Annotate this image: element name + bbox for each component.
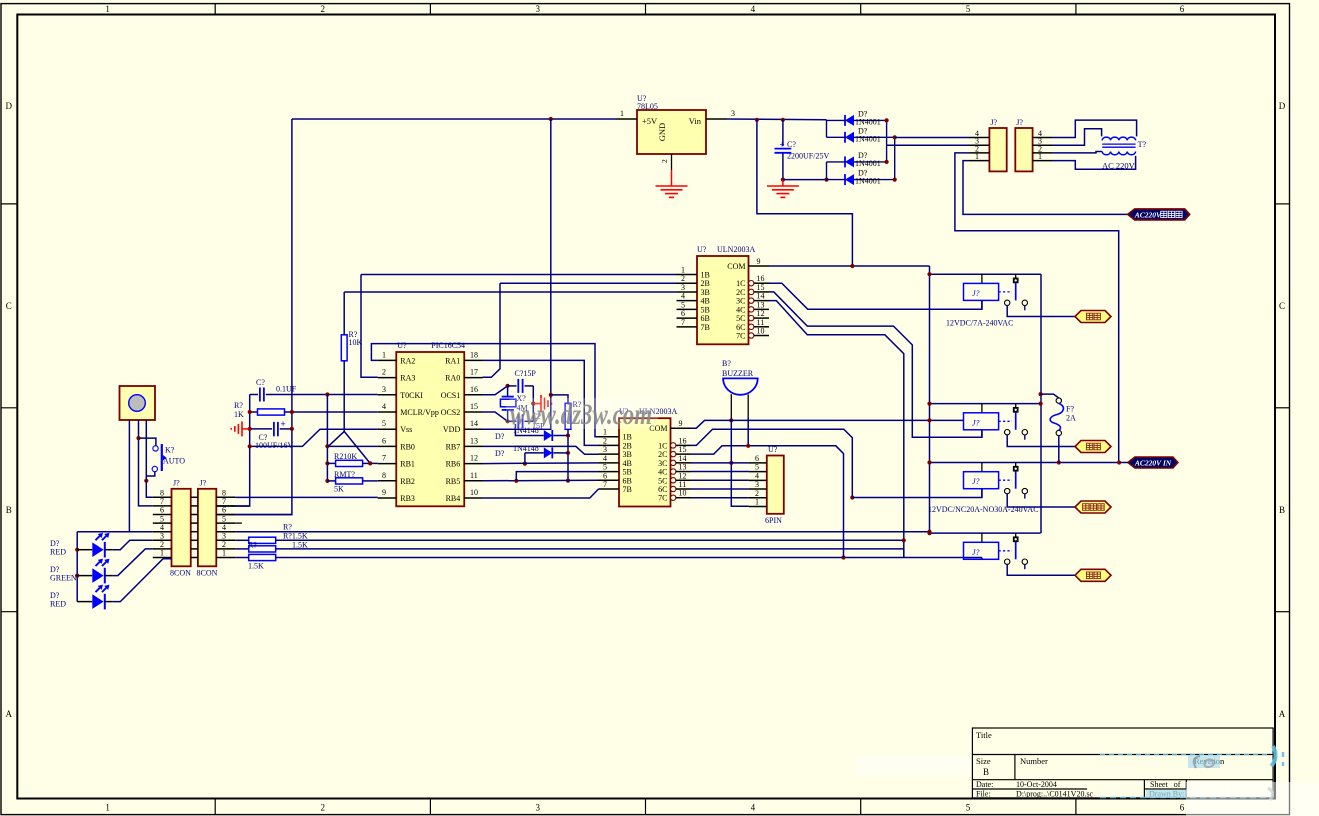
svg-text:2: 2 <box>320 803 325 813</box>
svg-text:1N4148: 1N4148 <box>513 444 539 453</box>
svg-text:J?: J? <box>972 289 980 298</box>
svg-text:1: 1 <box>681 266 685 275</box>
svg-text:RED: RED <box>50 599 66 608</box>
svg-text:3C: 3C <box>736 297 745 306</box>
svg-text:GND: GND <box>657 123 667 141</box>
svg-text:5: 5 <box>966 803 971 813</box>
svg-text:6: 6 <box>382 436 386 445</box>
svg-text:10: 10 <box>470 488 478 497</box>
svg-text:OCS1: OCS1 <box>441 391 461 400</box>
svg-text:PIC16C54: PIC16C54 <box>431 341 465 350</box>
svg-text:7B: 7B <box>701 323 710 332</box>
svg-text:1N4001: 1N4001 <box>855 159 881 168</box>
svg-text:14: 14 <box>679 454 687 463</box>
svg-text:RMT?: RMT? <box>334 470 355 479</box>
svg-text:6C: 6C <box>736 323 745 332</box>
svg-text:0.1UF: 0.1UF <box>276 385 297 394</box>
svg-text:16: 16 <box>470 385 478 394</box>
svg-text:RB5: RB5 <box>446 477 461 486</box>
svg-text:1C: 1C <box>736 279 745 288</box>
svg-text:RA3: RA3 <box>400 374 415 383</box>
svg-text:Sheet of: Sheet of <box>1150 780 1181 789</box>
svg-text:J?: J? <box>173 479 180 488</box>
svg-text:4: 4 <box>751 4 756 14</box>
svg-text:1: 1 <box>620 109 624 118</box>
svg-text:J?: J? <box>200 479 207 488</box>
svg-text:4B: 4B <box>623 459 632 468</box>
svg-text:11: 11 <box>757 318 765 327</box>
svg-text:6: 6 <box>1180 4 1185 14</box>
svg-text:RA2: RA2 <box>400 356 415 365</box>
svg-text:MCLR/Vpp: MCLR/Vpp <box>400 408 439 417</box>
svg-text:18: 18 <box>470 350 478 359</box>
svg-text:7C: 7C <box>658 494 667 503</box>
svg-text:GREEN: GREEN <box>50 573 77 582</box>
svg-text:9: 9 <box>757 257 761 266</box>
svg-text:RB4: RB4 <box>446 494 461 503</box>
svg-text:R210K: R210K <box>334 452 357 461</box>
svg-text:2: 2 <box>382 368 386 377</box>
svg-text:A: A <box>1279 709 1286 719</box>
svg-text:10: 10 <box>679 489 687 498</box>
svg-text:6B: 6B <box>701 314 710 323</box>
svg-text:15: 15 <box>757 283 765 292</box>
svg-text:1: 1 <box>222 549 226 558</box>
svg-text:2200UF/25V: 2200UF/25V <box>787 152 829 161</box>
svg-text:1: 1 <box>975 152 979 161</box>
svg-text:4: 4 <box>681 292 685 301</box>
svg-text:RB0: RB0 <box>400 442 415 451</box>
svg-text:C?15P: C?15P <box>515 369 537 378</box>
svg-text:K?: K? <box>165 446 175 455</box>
svg-text:RB3: RB3 <box>400 494 415 503</box>
svg-text:11: 11 <box>470 471 478 480</box>
svg-text:10-Oct-2004: 10-Oct-2004 <box>1016 780 1057 789</box>
svg-text:13: 13 <box>757 300 765 309</box>
svg-text:1: 1 <box>105 4 110 14</box>
svg-text:6PIN: 6PIN <box>765 516 782 525</box>
svg-text:12: 12 <box>679 471 687 480</box>
svg-text:RED: RED <box>50 548 66 557</box>
svg-text:RB1: RB1 <box>400 460 415 469</box>
svg-text:1.5K: 1.5K <box>292 541 308 550</box>
svg-text:Size: Size <box>976 756 991 766</box>
svg-text:3: 3 <box>731 109 735 118</box>
svg-text:J?: J? <box>972 418 980 427</box>
svg-text:6: 6 <box>603 471 607 480</box>
svg-text:+: + <box>780 140 785 150</box>
svg-text:5: 5 <box>382 419 386 428</box>
svg-text:1B: 1B <box>701 271 710 280</box>
svg-text:3: 3 <box>681 283 685 292</box>
svg-text:T0CKI: T0CKI <box>400 391 423 400</box>
svg-text:3C: 3C <box>658 459 667 468</box>
svg-text:5B: 5B <box>623 468 632 477</box>
svg-text:15: 15 <box>470 402 478 411</box>
svg-text:7B: 7B <box>623 485 632 494</box>
svg-text:BUZZER: BUZZER <box>722 369 754 378</box>
svg-text:5K: 5K <box>334 485 344 494</box>
svg-text:D: D <box>1279 101 1286 111</box>
svg-text:5B: 5B <box>701 305 710 314</box>
svg-text:RB6: RB6 <box>446 460 461 469</box>
svg-text:7C: 7C <box>736 332 745 341</box>
svg-text:ULN2003A: ULN2003A <box>717 245 755 254</box>
svg-text:2: 2 <box>320 4 325 14</box>
svg-text:F?: F? <box>1066 405 1074 414</box>
svg-text:9: 9 <box>679 419 683 428</box>
svg-text:C: C <box>6 301 12 311</box>
svg-text:12: 12 <box>470 454 478 463</box>
svg-text:3: 3 <box>755 480 759 489</box>
svg-text:5: 5 <box>681 300 685 309</box>
svg-text:5C: 5C <box>736 314 745 323</box>
svg-text:Vss: Vss <box>400 425 412 434</box>
svg-text:6: 6 <box>1180 803 1185 813</box>
svg-text:6B: 6B <box>623 476 632 485</box>
svg-text:1: 1 <box>755 498 759 507</box>
svg-text:16: 16 <box>679 436 687 445</box>
svg-text:1: 1 <box>160 549 164 558</box>
svg-text:R?: R? <box>234 401 243 410</box>
svg-text:1K: 1K <box>234 410 244 419</box>
svg-text:3B: 3B <box>701 288 710 297</box>
svg-text:AC220V IN: AC220V IN <box>1134 459 1172 468</box>
svg-text:AC220V: AC220V <box>1134 210 1162 219</box>
svg-text:8: 8 <box>382 471 386 480</box>
svg-text:Title: Title <box>976 730 992 740</box>
svg-text:10K: 10K <box>349 338 363 347</box>
svg-text:1N4001: 1N4001 <box>855 177 881 186</box>
svg-text:14: 14 <box>470 419 478 428</box>
svg-text:4: 4 <box>382 402 386 411</box>
svg-text:J?: J? <box>1016 118 1023 127</box>
svg-text:4C: 4C <box>658 468 667 477</box>
svg-text:R?1.5K: R?1.5K <box>283 532 308 541</box>
svg-text:J?: J? <box>990 118 997 127</box>
svg-text:78L05: 78L05 <box>637 102 658 111</box>
svg-text:C?: C? <box>787 140 796 149</box>
svg-text:2: 2 <box>755 489 759 498</box>
svg-text:12VDC/NC20A-NO30A-240VAC: 12VDC/NC20A-NO30A-240VAC <box>928 505 1039 514</box>
svg-text:5C: 5C <box>658 476 667 485</box>
svg-text:3: 3 <box>536 4 541 14</box>
svg-text:2: 2 <box>660 159 669 163</box>
svg-text:COM: COM <box>727 262 745 271</box>
svg-text:RB7: RB7 <box>446 442 461 451</box>
svg-text:9: 9 <box>382 488 386 497</box>
svg-text:T?: T? <box>1138 140 1147 149</box>
svg-text:15: 15 <box>679 445 687 454</box>
svg-text:www.dz3w.com: www.dz3w.com <box>510 398 652 431</box>
svg-text:2B: 2B <box>623 441 632 450</box>
svg-text:2B: 2B <box>701 279 710 288</box>
svg-text:J?: J? <box>972 477 980 486</box>
svg-text:AC 220V: AC 220V <box>1102 160 1136 170</box>
svg-text:11: 11 <box>679 480 687 489</box>
svg-text:6: 6 <box>681 309 685 318</box>
svg-text:10: 10 <box>757 327 765 336</box>
svg-text:RA0: RA0 <box>445 374 460 383</box>
svg-text:7: 7 <box>382 454 386 463</box>
svg-text:16: 16 <box>757 274 765 283</box>
svg-text:4C: 4C <box>736 305 745 314</box>
svg-text:4: 4 <box>603 454 607 463</box>
svg-text:Vin: Vin <box>689 116 702 126</box>
svg-text:12: 12 <box>757 309 765 318</box>
svg-text:4: 4 <box>755 471 759 480</box>
svg-text:R?: R? <box>248 541 257 550</box>
svg-text:3B: 3B <box>623 450 632 459</box>
svg-text:RA1: RA1 <box>445 356 460 365</box>
svg-text:AUTO: AUTO <box>163 457 185 466</box>
svg-text:6: 6 <box>755 454 759 463</box>
svg-text:5: 5 <box>755 463 759 472</box>
svg-text:1.5K: 1.5K <box>248 562 264 571</box>
svg-text:A: A <box>6 709 13 719</box>
svg-text:J?: J? <box>972 548 980 557</box>
svg-text:C: C <box>1279 301 1285 311</box>
svg-text:D?: D? <box>495 432 505 441</box>
svg-text:2C: 2C <box>658 450 667 459</box>
svg-text:4: 4 <box>751 803 756 813</box>
svg-text:5: 5 <box>966 4 971 14</box>
svg-text:8CON: 8CON <box>170 569 191 578</box>
svg-text:+: + <box>281 419 286 429</box>
svg-text:B?: B? <box>722 359 731 368</box>
svg-text:5: 5 <box>603 463 607 472</box>
svg-text:13: 13 <box>679 463 687 472</box>
svg-text:U?: U? <box>697 245 707 254</box>
svg-text:17: 17 <box>470 368 478 377</box>
svg-text:1N4001: 1N4001 <box>855 118 881 127</box>
svg-text:1C: 1C <box>658 441 667 450</box>
svg-text:D:\prog:..\C0141V20.sc: D:\prog:..\C0141V20.sc <box>1016 790 1094 799</box>
svg-text:1: 1 <box>382 350 386 359</box>
svg-text:2C: 2C <box>736 288 745 297</box>
svg-text:3: 3 <box>382 385 386 394</box>
svg-text:D?: D? <box>495 449 505 458</box>
svg-text:U?: U? <box>397 341 407 350</box>
svg-text:B: B <box>983 767 989 777</box>
svg-text:+5V: +5V <box>642 116 658 126</box>
svg-text:RB2: RB2 <box>400 477 415 486</box>
svg-text:4B: 4B <box>701 297 710 306</box>
svg-text:D: D <box>6 101 13 111</box>
svg-text:7: 7 <box>603 480 607 489</box>
svg-text:1B: 1B <box>623 433 632 442</box>
svg-text:100UF/16V: 100UF/16V <box>255 441 293 450</box>
svg-text:7: 7 <box>681 318 685 327</box>
svg-text:2A: 2A <box>1066 414 1076 423</box>
svg-text:12VDC/7A-240VAC: 12VDC/7A-240VAC <box>946 319 1013 328</box>
svg-text:2: 2 <box>681 274 685 283</box>
svg-text:OCS2: OCS2 <box>441 408 461 417</box>
svg-text:B: B <box>6 505 12 515</box>
svg-text:R?: R? <box>283 523 292 532</box>
svg-text:3: 3 <box>536 803 541 813</box>
svg-text:14: 14 <box>757 292 765 301</box>
svg-text:1: 1 <box>1038 152 1042 161</box>
svg-text:C?: C? <box>256 378 265 387</box>
svg-text:1: 1 <box>105 803 110 813</box>
svg-text:B: B <box>1279 505 1285 515</box>
svg-text:File:: File: <box>976 790 991 799</box>
svg-text:8CON: 8CON <box>197 569 218 578</box>
svg-text:13: 13 <box>470 436 478 445</box>
svg-text:3: 3 <box>603 445 607 454</box>
svg-text:Date:: Date: <box>976 780 993 789</box>
svg-text:6C: 6C <box>658 485 667 494</box>
svg-text:2: 2 <box>603 436 607 445</box>
svg-text:Number: Number <box>1020 756 1048 766</box>
svg-text:VDD: VDD <box>443 425 461 434</box>
svg-text:U?: U? <box>768 445 778 454</box>
svg-text:1N4001: 1N4001 <box>855 135 881 144</box>
